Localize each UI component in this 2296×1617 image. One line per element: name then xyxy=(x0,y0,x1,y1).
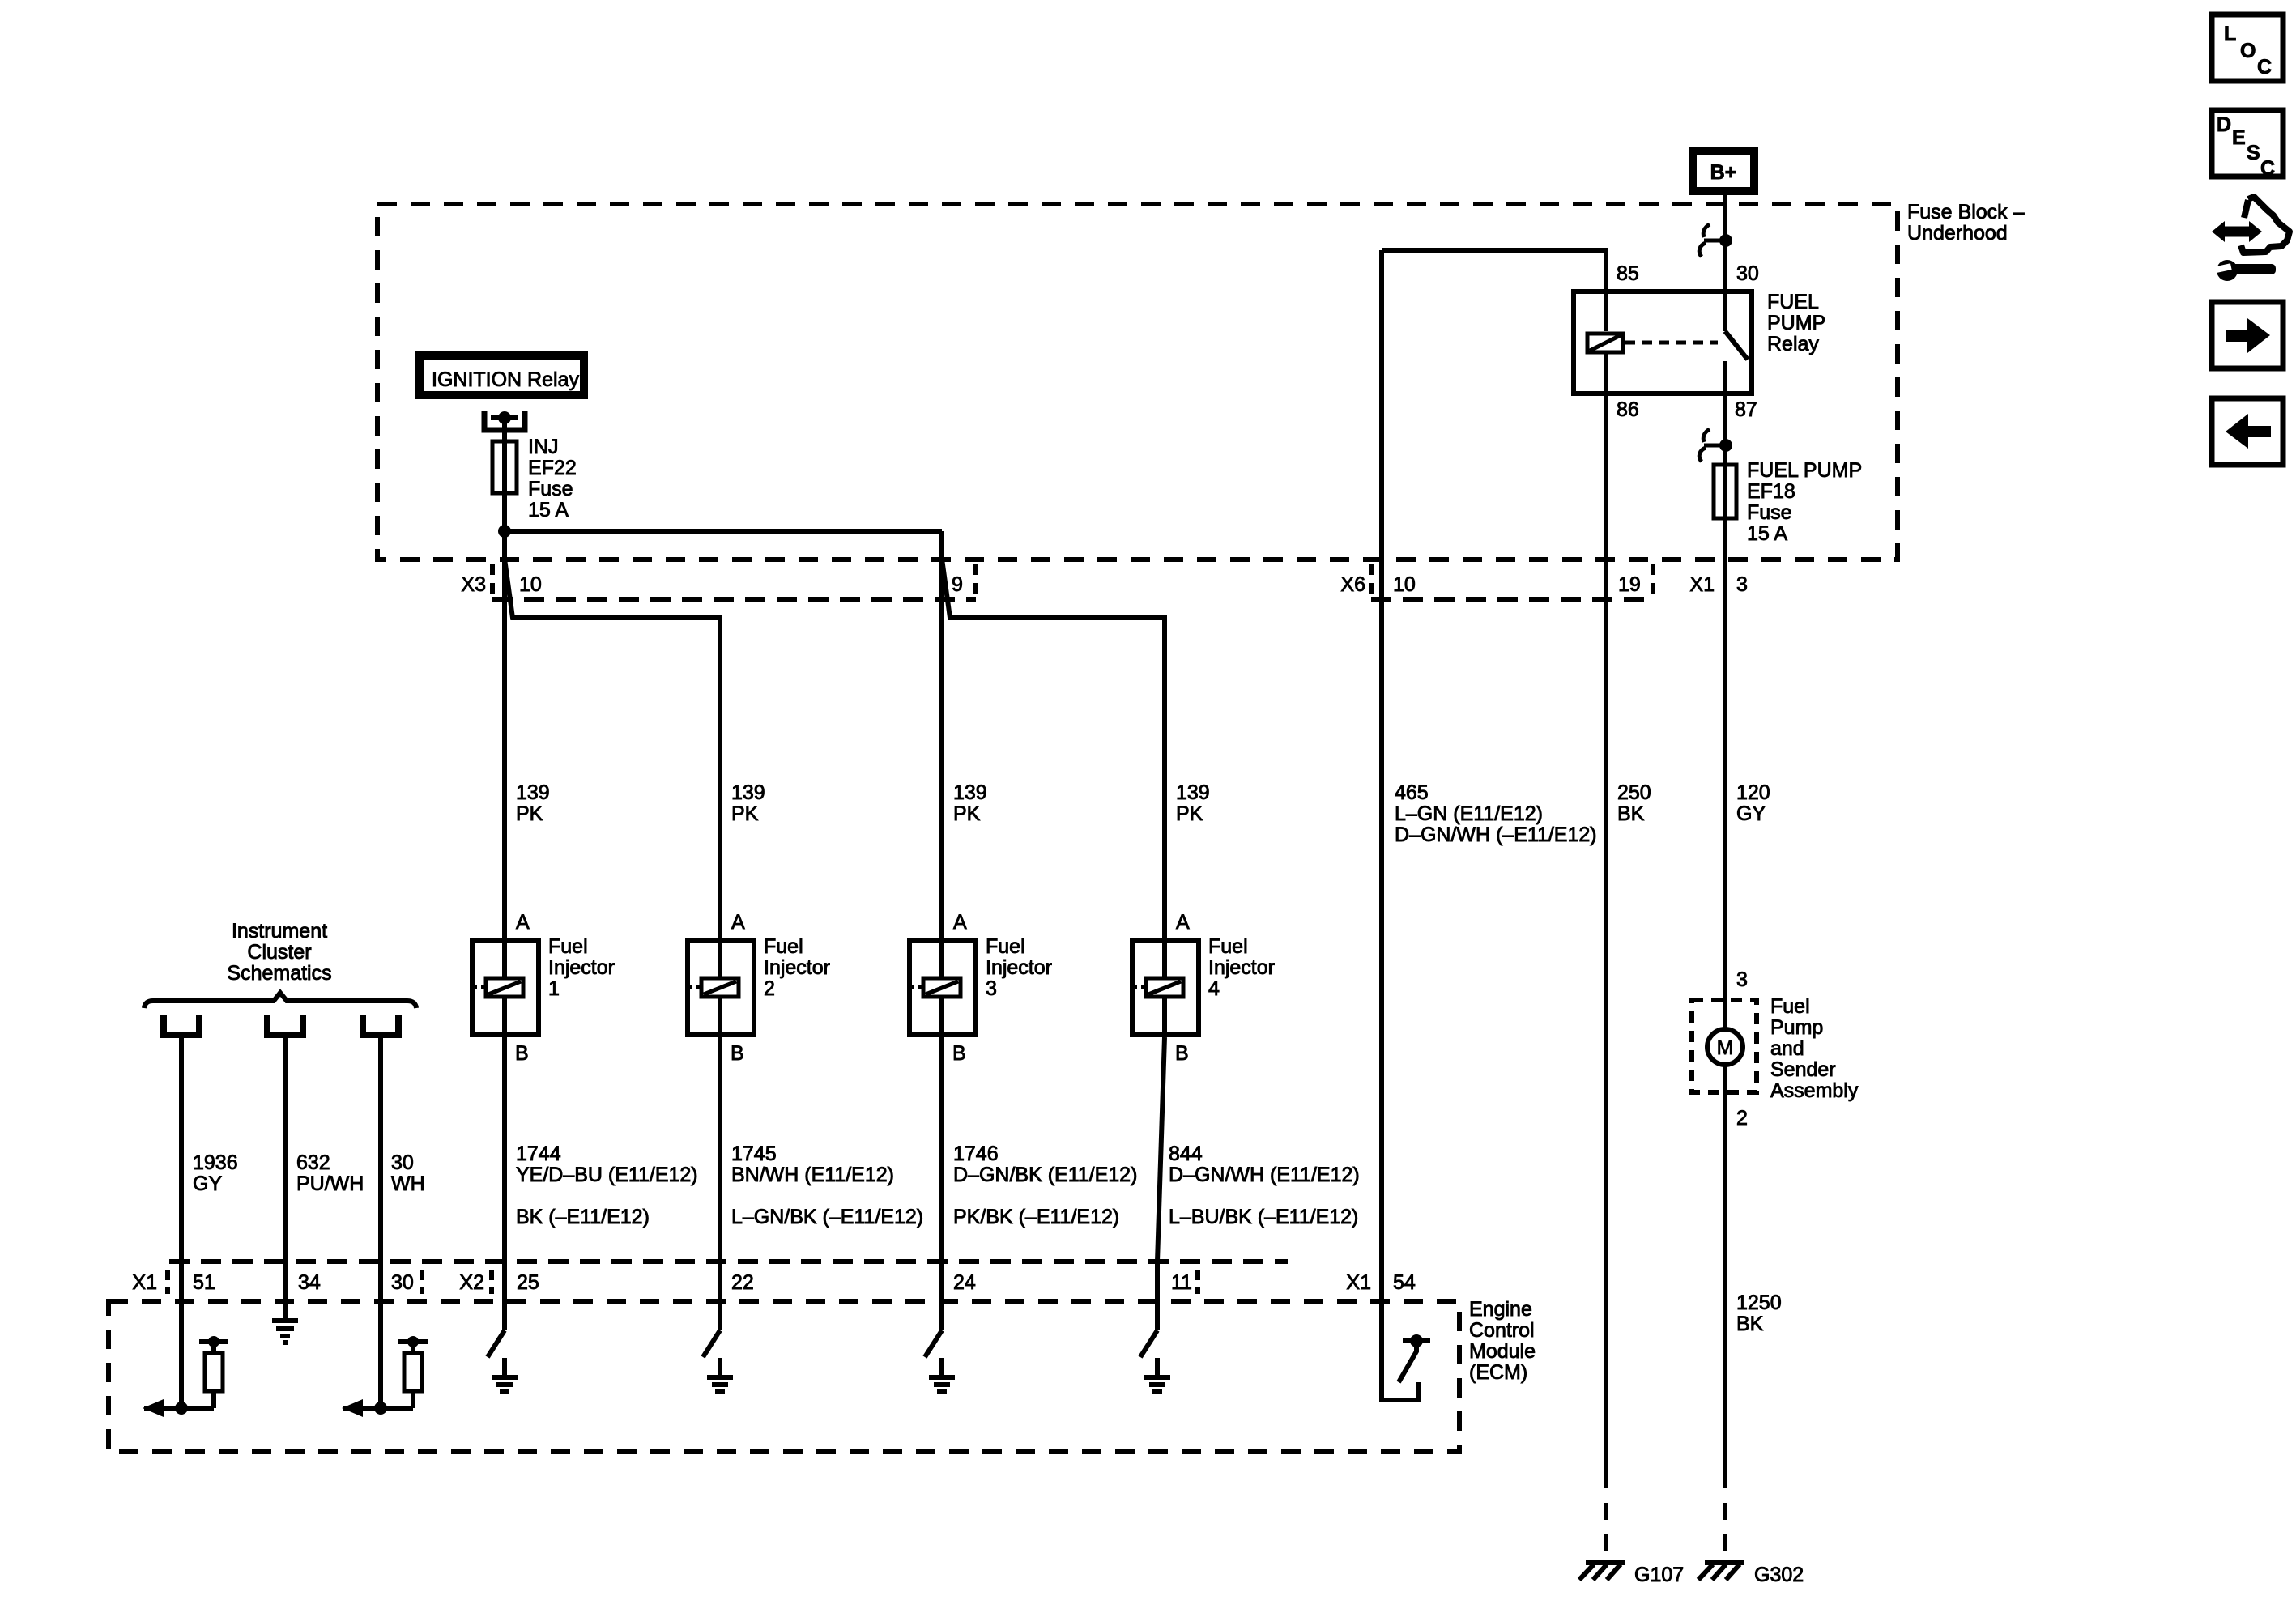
pin 9 of X3 xyxy=(952,573,963,596)
wire feed to X3 pin 9 xyxy=(505,529,942,534)
svg-text:3: 3 xyxy=(1736,573,1748,596)
svg-text:15 A: 15 A xyxy=(1747,522,1787,545)
wire label 1250 BK xyxy=(1736,1291,1782,1335)
label Fuel Injector 4 xyxy=(1208,935,1275,1000)
pin 24 of X2 xyxy=(953,1271,976,1294)
svg-text:GY: GY xyxy=(193,1172,222,1195)
svg-text:30: 30 xyxy=(391,1151,414,1174)
pin 51 of X1 xyxy=(193,1271,215,1294)
svg-text:Fuel: Fuel xyxy=(548,935,588,958)
cluster connector cavity 632 PU/WH xyxy=(267,1015,303,1035)
svg-text:Assembly: Assembly xyxy=(1770,1079,1859,1102)
label Fuel Injector 3 xyxy=(986,935,1052,1000)
svg-text:PK/BK (–E11/E12): PK/BK (–E11/E12) xyxy=(953,1206,1119,1228)
wire X3 pin 9 down to injector 3 xyxy=(939,531,944,938)
svg-text:Injector: Injector xyxy=(548,956,615,979)
svg-text:PK: PK xyxy=(1176,802,1203,825)
wire pump to G302 xyxy=(1723,1066,1727,1471)
svg-text:25: 25 xyxy=(517,1271,539,1294)
svg-text:X3: X3 xyxy=(461,573,486,596)
wire fuse EF22 down to injector 1 xyxy=(502,495,507,938)
svg-text:139: 139 xyxy=(731,781,765,804)
dashed wire to G302 xyxy=(1723,1471,1727,1556)
pin 54 of X1 xyxy=(1393,1271,1416,1294)
cluster connector cavity 1936 GY xyxy=(164,1015,199,1035)
relay switch contact 30-87 xyxy=(1725,291,1748,394)
svg-text:30: 30 xyxy=(391,1271,414,1294)
svg-text:B: B xyxy=(1175,1042,1189,1065)
svg-text:INJ: INJ xyxy=(528,436,559,458)
svg-text:L: L xyxy=(2224,23,2236,45)
svg-text:(ECM): (ECM) xyxy=(1469,1361,1527,1384)
svg-text:139: 139 xyxy=(516,781,550,804)
wire label circuit 1744 injector 1 xyxy=(516,1143,698,1228)
svg-text:87: 87 xyxy=(1735,398,1757,421)
relay actuation dashed link xyxy=(1625,341,1718,345)
svg-text:Schematics: Schematics xyxy=(227,962,331,985)
svg-text:X1: X1 xyxy=(1346,1271,1371,1294)
pin 2 of pump xyxy=(1736,1107,1748,1130)
Engine Control Module dashed box xyxy=(109,1301,1459,1452)
wire label 250 BK xyxy=(1617,781,1651,825)
svg-text:C: C xyxy=(2257,56,2272,79)
wire pin 87 to fuse EF18 xyxy=(1723,394,1727,462)
svg-text:632: 632 xyxy=(296,1151,330,1174)
svg-text:1744: 1744 xyxy=(516,1143,561,1165)
pin 85 xyxy=(1617,262,1639,285)
connector X6 label xyxy=(1340,573,1365,596)
svg-text:2: 2 xyxy=(1736,1107,1748,1130)
pin 19 of X6 xyxy=(1618,573,1641,596)
svg-text:O: O xyxy=(2240,40,2256,62)
label Instrument Cluster Schematics xyxy=(227,920,331,985)
fuel injector 2 xyxy=(687,938,754,1037)
svg-text:WH: WH xyxy=(391,1172,425,1195)
fuel pump relay driver in ECM pin 54 xyxy=(1379,1334,1430,1400)
wire label circuit 844 injector 4 xyxy=(1169,1143,1360,1228)
pin B of injector 1 xyxy=(515,1042,529,1065)
wire fuse EF18 to fuel pump xyxy=(1723,521,1727,1028)
wire 465 L-GN from ECM 54 up to relay xyxy=(1379,250,1384,1400)
svg-text:PU/WH: PU/WH xyxy=(296,1172,364,1195)
svg-text:D–GN/WH (–E11/E12): D–GN/WH (–E11/E12) xyxy=(1395,823,1597,846)
svg-text:Fuel: Fuel xyxy=(764,935,803,958)
svg-text:B: B xyxy=(515,1042,529,1065)
connector X1 label xyxy=(1689,573,1715,596)
junction node below fuse EF22 xyxy=(498,525,511,538)
svg-text:PK: PK xyxy=(516,802,543,825)
svg-text:and: and xyxy=(1770,1037,1804,1060)
svg-text:11: 11 xyxy=(1171,1271,1192,1294)
signal arrow in ECM at pin 51 xyxy=(143,1399,214,1417)
label INJ EF22 Fuse 15 A xyxy=(528,436,577,521)
pin 10 of X3 xyxy=(519,573,542,596)
svg-text:Injector: Injector xyxy=(1208,956,1275,979)
connector X3 label xyxy=(461,573,486,596)
svg-text:L–BU/BK (–E11/E12): L–BU/BK (–E11/E12) xyxy=(1169,1206,1358,1228)
label Fuel Injector 1 xyxy=(548,935,615,1000)
DESC icon box xyxy=(2212,110,2283,180)
wire label 139 PK injector 4 xyxy=(1176,781,1210,825)
svg-text:2: 2 xyxy=(764,977,775,1000)
svg-text:GY: GY xyxy=(1736,802,1766,825)
IGNITION Relay source label box xyxy=(420,355,584,395)
svg-text:BK: BK xyxy=(1617,802,1645,825)
wire label 632 PU/WH xyxy=(296,1151,364,1195)
connector X6 xyxy=(1371,564,1653,599)
svg-text:X6: X6 xyxy=(1340,573,1365,596)
ground symbol injector 3 driver xyxy=(929,1358,955,1392)
connector line X1/X2 instrument cluster and ECM xyxy=(168,1262,1288,1294)
chassis ground G107 xyxy=(1579,1563,1625,1580)
svg-text:Fuel: Fuel xyxy=(1770,995,1810,1018)
svg-text:Relay: Relay xyxy=(1767,333,1819,355)
wire top feed from X6-10 to relay pin 85 xyxy=(1382,248,1606,253)
wire 632 PU/WH cluster to X1-34 xyxy=(283,1038,288,1321)
fuel injector 4 xyxy=(1131,938,1199,1037)
svg-text:120: 120 xyxy=(1736,781,1770,804)
svg-text:51: 51 xyxy=(193,1271,215,1294)
injector 1 driver switch in ECM xyxy=(488,1330,505,1357)
pin 3 of X1 xyxy=(1736,573,1748,596)
svg-text:B+: B+ xyxy=(1710,161,1737,184)
svg-text:1250: 1250 xyxy=(1736,1291,1782,1314)
svg-text:BK (–E11/E12): BK (–E11/E12) xyxy=(516,1206,650,1228)
wire label 465 L-GN xyxy=(1395,781,1597,846)
svg-text:Underhood: Underhood xyxy=(1907,222,2008,245)
resistor in ECM at pin 30 xyxy=(398,1336,428,1408)
pin 34 of X1 xyxy=(298,1271,321,1294)
svg-text:250: 250 xyxy=(1617,781,1651,804)
svg-text:10: 10 xyxy=(519,573,542,596)
svg-text:YE/D–BU (E11/E12): YE/D–BU (E11/E12) xyxy=(516,1164,698,1186)
fuse block underhood dashed boundary xyxy=(377,204,1898,560)
svg-text:D–GN/WH (E11/E12): D–GN/WH (E11/E12) xyxy=(1169,1164,1360,1186)
svg-text:Module: Module xyxy=(1469,1340,1536,1363)
wire B+ down to relay pin 30 xyxy=(1723,195,1727,291)
connector X3 xyxy=(492,564,976,599)
pin B of injector 4 xyxy=(1175,1042,1189,1065)
svg-text:EF18: EF18 xyxy=(1747,480,1795,503)
svg-text:3: 3 xyxy=(986,977,997,1000)
brace under cluster label xyxy=(144,993,416,1008)
svg-text:139: 139 xyxy=(1176,781,1210,804)
svg-text:1: 1 xyxy=(548,977,560,1000)
svg-text:54: 54 xyxy=(1393,1271,1416,1294)
ground symbol injector 2 driver xyxy=(707,1358,733,1392)
fuel injector 1 xyxy=(471,938,539,1037)
svg-text:Control: Control xyxy=(1469,1319,1535,1342)
injector 2 driver switch in ECM xyxy=(703,1330,720,1357)
fuse EF18 FUEL PUMP 15A xyxy=(1714,462,1736,521)
label Fuel Pump and Sender Assembly xyxy=(1770,995,1859,1102)
svg-text:A: A xyxy=(953,911,967,934)
wire injector 1 pin B to ECM xyxy=(502,1037,507,1330)
svg-text:FUEL PUMP: FUEL PUMP xyxy=(1747,459,1862,482)
svg-text:139: 139 xyxy=(953,781,987,804)
label G107 xyxy=(1634,1564,1684,1586)
svg-text:BN/WH (E11/E12): BN/WH (E11/E12) xyxy=(731,1164,894,1186)
pin 30 of X1 xyxy=(391,1271,414,1294)
svg-text:D: D xyxy=(2217,113,2231,136)
svg-text:FUEL: FUEL xyxy=(1767,291,1819,313)
relay output receptacle symbol xyxy=(484,411,525,439)
svg-text:G107: G107 xyxy=(1634,1564,1684,1586)
svg-text:9: 9 xyxy=(952,573,963,596)
pin B of injector 3 xyxy=(952,1042,966,1065)
ground symbol at ECM pin 34 xyxy=(272,1321,298,1343)
wire label circuit 1745 injector 2 xyxy=(731,1143,923,1228)
pin 11 of X2 xyxy=(1171,1271,1192,1294)
node B+ battery feed xyxy=(1693,151,1754,191)
svg-text:PK: PK xyxy=(731,802,759,825)
svg-text:19: 19 xyxy=(1618,573,1641,596)
wire coil to pin 86 xyxy=(1604,354,1608,394)
wire label circuit 1746 injector 3 xyxy=(953,1143,1137,1228)
svg-text:15 A: 15 A xyxy=(528,499,569,521)
wire label 139 PK injector 2 xyxy=(731,781,765,825)
signal arrow in ECM at pin 30 xyxy=(342,1399,413,1417)
svg-text:30: 30 xyxy=(1736,262,1759,285)
svg-text:Cluster: Cluster xyxy=(247,941,311,964)
wire 1936 GY cluster to X1-51 xyxy=(179,1038,184,1408)
svg-text:3: 3 xyxy=(1736,968,1748,991)
label Fuse Block Underhood xyxy=(1907,201,2025,245)
forward arrow icon box xyxy=(2212,302,2283,368)
svg-text:IGNITION Relay: IGNITION Relay xyxy=(432,368,579,391)
svg-text:Instrument: Instrument xyxy=(232,920,327,943)
svg-text:BK: BK xyxy=(1736,1313,1764,1335)
wire injector 4 pin B to ECM xyxy=(1157,1037,1165,1330)
svg-text:L–GN (E11/E12): L–GN (E11/E12) xyxy=(1395,802,1543,825)
svg-text:S: S xyxy=(2247,142,2260,164)
wire label 120 GY xyxy=(1736,781,1770,825)
wire injector 3 pin B to ECM xyxy=(939,1037,944,1330)
label G302 xyxy=(1754,1564,1804,1586)
wire slant at X3 pin 9 to injector 4 branch xyxy=(942,559,1165,938)
relay coil xyxy=(1587,334,1623,352)
svg-text:PK: PK xyxy=(953,802,981,825)
wire injector 2 pin B to ECM xyxy=(718,1037,722,1330)
fuel pump and sender assembly dashed box xyxy=(1692,1000,1757,1092)
svg-text:A: A xyxy=(731,911,745,934)
svg-text:Fuel: Fuel xyxy=(1208,935,1248,958)
svg-text:Sender: Sender xyxy=(1770,1058,1836,1081)
svg-text:B: B xyxy=(952,1042,966,1065)
harness-direction icon (double arrow, outline, wrench) xyxy=(2212,197,2290,281)
resistor in ECM at pin 51 xyxy=(199,1336,228,1408)
node junction at ECM pin 51 xyxy=(175,1402,188,1415)
svg-text:Injector: Injector xyxy=(986,956,1052,979)
ground symbol injector 4 driver xyxy=(1144,1358,1170,1392)
pin 87 xyxy=(1735,398,1757,421)
pump motor M xyxy=(1707,1029,1743,1065)
wire label 30 WH xyxy=(391,1151,425,1195)
svg-text:X1: X1 xyxy=(1689,573,1715,596)
svg-text:1745: 1745 xyxy=(731,1143,777,1165)
label FUEL PUMP EF18 Fuse 15 A xyxy=(1747,459,1862,545)
svg-text:10: 10 xyxy=(1393,573,1416,596)
injector 4 driver switch in ECM xyxy=(1140,1330,1157,1357)
wire 250 BK pin86 to G107 xyxy=(1604,394,1608,1471)
connector X2 label xyxy=(459,1271,484,1294)
chassis ground G302 xyxy=(1698,1563,1744,1580)
svg-text:EF22: EF22 xyxy=(528,457,577,479)
svg-text:C: C xyxy=(2260,157,2275,180)
cluster connector cavity 30 WH xyxy=(363,1015,398,1035)
dashed wire to G107 xyxy=(1604,1471,1608,1556)
svg-text:E: E xyxy=(2232,126,2246,149)
svg-text:465: 465 xyxy=(1395,781,1429,804)
svg-text:85: 85 xyxy=(1617,262,1639,285)
relay K: FUEL PUMP Relay box xyxy=(1574,291,1752,394)
pin 10 of X6 xyxy=(1393,573,1416,596)
ground symbol injector 1 driver xyxy=(492,1358,518,1392)
injector 3 driver switch in ECM xyxy=(925,1330,942,1357)
wire label 139 PK injector 1 xyxy=(516,781,550,825)
svg-text:1936: 1936 xyxy=(193,1151,238,1174)
wire label 1936 GY xyxy=(193,1151,238,1195)
pin B of injector 2 xyxy=(731,1042,744,1065)
pin 86 xyxy=(1617,398,1639,421)
fuel injector 3 xyxy=(909,938,976,1037)
svg-text:34: 34 xyxy=(298,1271,321,1294)
label Fuel Injector 2 xyxy=(764,935,830,1000)
inline harness break symbol at relay pin 87 xyxy=(1699,429,1732,462)
svg-text:Fuse Block –: Fuse Block – xyxy=(1907,201,2025,223)
svg-text:D–GN/BK (E11/E12): D–GN/BK (E11/E12) xyxy=(953,1164,1137,1186)
back arrow icon box xyxy=(2212,398,2283,465)
svg-text:M: M xyxy=(1717,1036,1734,1059)
pin 25 of X2 xyxy=(517,1271,539,1294)
svg-text:G302: G302 xyxy=(1754,1564,1804,1586)
LOC icon box xyxy=(2212,15,2283,81)
svg-text:4: 4 xyxy=(1208,977,1220,1000)
svg-text:X1: X1 xyxy=(132,1271,157,1294)
inline harness break symbol at B+ feed xyxy=(1699,224,1732,257)
svg-text:PUMP: PUMP xyxy=(1767,312,1825,334)
wire 30 WH cluster to X1-30 xyxy=(378,1038,383,1408)
pin A of injector 2 xyxy=(731,911,745,934)
pin 22 of X2 xyxy=(731,1271,754,1294)
svg-text:Fuel: Fuel xyxy=(986,935,1025,958)
pin 30 xyxy=(1736,262,1759,285)
svg-text:X2: X2 xyxy=(459,1271,484,1294)
svg-text:Pump: Pump xyxy=(1770,1016,1823,1039)
svg-text:L–GN/BK (–E11/E12): L–GN/BK (–E11/E12) xyxy=(731,1206,923,1228)
svg-text:24: 24 xyxy=(953,1271,976,1294)
svg-text:844: 844 xyxy=(1169,1143,1203,1165)
wire label 139 PK injector 3 xyxy=(953,781,987,825)
wire slant at X3 pin 10 to injector 2 branch xyxy=(505,559,720,938)
svg-text:A: A xyxy=(1176,911,1190,934)
pin A of injector 4 xyxy=(1176,911,1190,934)
svg-text:86: 86 xyxy=(1617,398,1639,421)
pin A of injector 3 xyxy=(953,911,967,934)
pin A of injector 1 xyxy=(516,911,530,934)
svg-text:Injector: Injector xyxy=(764,956,830,979)
svg-text:Fuse: Fuse xyxy=(1747,501,1792,524)
node junction at ECM pin 30 xyxy=(374,1402,387,1415)
connector X1 cluster label xyxy=(132,1271,157,1294)
svg-text:B: B xyxy=(731,1042,744,1065)
wire relay pin 85 drop xyxy=(1604,248,1608,331)
svg-text:22: 22 xyxy=(731,1271,754,1294)
label FUEL PUMP Relay xyxy=(1767,291,1825,355)
svg-text:A: A xyxy=(516,911,530,934)
svg-text:Engine: Engine xyxy=(1469,1298,1532,1321)
svg-text:1746: 1746 xyxy=(953,1143,999,1165)
label Engine Control Module ECM xyxy=(1469,1298,1536,1384)
connector X1 ECM label xyxy=(1346,1271,1371,1294)
svg-text:Fuse: Fuse xyxy=(528,478,573,500)
fuse EF22 INJ 15A xyxy=(492,439,517,495)
pin 3 of pump xyxy=(1736,968,1748,991)
